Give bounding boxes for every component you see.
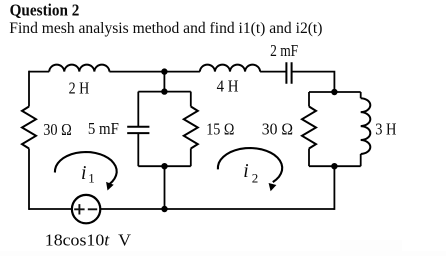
svg-text:30 Ω: 30 Ω	[262, 119, 293, 139]
node A junction dot	[161, 68, 167, 74]
wire: middle box left branch lower lead	[137, 133, 139, 166]
capacitor C1 2mF (top rail)	[286, 62, 291, 83]
mesh current arrow i2 head	[269, 183, 277, 191]
svg-text:3 H: 3 H	[375, 120, 396, 138]
svg-text:2 mF: 2 mF	[270, 41, 298, 60]
resistor R1 30ohm (left outer branch)	[22, 107, 36, 149]
mesh current arrow i1 arc	[55, 152, 117, 184]
node C junction dot	[161, 88, 167, 94]
wire: top rail left lead	[29, 71, 49, 73]
svg-text:i: i	[243, 161, 248, 182]
wire: left outer vertical upper segment	[28, 71, 30, 107]
inductor L1 2H (top-left rail)	[49, 65, 109, 72]
faint background panel bottom-right	[340, 240, 402, 252]
wire: right box left branch lower lead	[308, 149, 310, 167]
wire: right box bottom rail	[309, 165, 361, 167]
node D junction dot (middle box bottom)	[161, 163, 167, 169]
svg-text:15 Ω: 15 Ω	[206, 120, 234, 138]
node F junction dot (bottom rail middle)	[161, 206, 167, 212]
svg-text:18cos10t V: 18cos10t V	[45, 230, 132, 250]
svg-text:1: 1	[88, 171, 95, 186]
svg-text:4 H: 4 H	[217, 78, 239, 96]
resistor R3 30ohm (right box left branch)	[302, 107, 316, 149]
svg-text:30 Ω: 30 Ω	[43, 121, 72, 139]
wire: top rail between node A and 4H	[164, 71, 200, 73]
node E junction dot (right box bottom)	[331, 163, 337, 169]
wire: bottom rail left of source	[29, 208, 72, 210]
faint background strip bottom	[0, 251, 446, 256]
wire: top rail between 2H and node A	[109, 71, 164, 73]
svg-text:i: i	[81, 163, 86, 184]
resistor R2 15ohm (middle box right branch)	[184, 107, 198, 149]
wire: right box right branch lower lead	[360, 154, 362, 166]
svg-text:5 mF: 5 mF	[88, 120, 119, 138]
wire: top rail right of C1 with corner down to node B	[292, 72, 334, 92]
wire: bottom rail right of source	[100, 208, 334, 210]
mesh current arrow i1 head	[106, 182, 114, 191]
svg-text:Find mesh analysis method and: Find mesh analysis method and find i1(t)…	[9, 20, 322, 37]
node B junction dot (right box top)	[331, 89, 337, 95]
wire: stub from node E down to bottom rail	[333, 166, 335, 210]
wire: middle box right branch upper lead	[190, 92, 192, 107]
wire: stub from node A down to node C	[163, 72, 165, 92]
wire: right box top rail	[309, 91, 361, 93]
wire: middle box bottom rail	[138, 165, 191, 167]
wire: middle box right branch lower lead	[190, 149, 192, 167]
wire: right box right branch upper lead	[360, 92, 362, 98]
wire: top rail between 4H and C1	[260, 71, 286, 73]
svg-text:2: 2	[252, 171, 258, 186]
wire: middle box top rail	[138, 91, 191, 93]
wire: left outer vertical lower segment	[28, 149, 30, 210]
svg-text:Question 2: Question 2	[10, 2, 80, 20]
wire: right box left branch upper lead	[308, 92, 310, 107]
voltage source plus sign	[74, 204, 84, 214]
inductor L2 4H (top-middle rail)	[200, 65, 260, 72]
svg-text:2 H: 2 H	[69, 79, 90, 98]
voltage source minus sign	[88, 208, 97, 210]
mesh current arrow i2 arc	[218, 148, 282, 182]
wire: stub from node D down to bottom rail	[164, 166, 166, 209]
voltage source V1 circle	[72, 195, 100, 223]
wire: middle box left branch upper lead	[137, 92, 139, 127]
inductor L3 3H (right box right branch)	[361, 98, 371, 154]
capacitor C2 5mF (middle box left branch)	[127, 127, 149, 133]
